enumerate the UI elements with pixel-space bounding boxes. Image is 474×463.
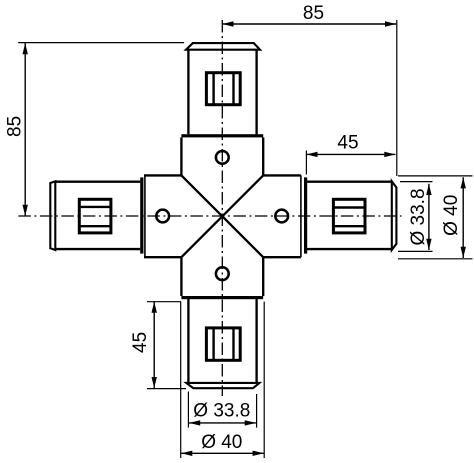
hole right socket — [275, 210, 288, 223]
dimension dia 40 right — [398, 176, 473, 259]
top tube clamp detail — [206, 73, 240, 105]
hole top socket — [216, 151, 229, 164]
svg-text:45: 45 — [337, 132, 358, 153]
svg-text:45: 45 — [130, 332, 151, 353]
dimension dia 40 bottom — [181, 302, 265, 458]
svg-text:Ø 40: Ø 40 — [201, 432, 242, 453]
svg-text:85: 85 — [303, 3, 324, 24]
right socket face — [300, 175, 302, 257]
top tube end cap — [186, 43, 260, 50]
svg-text:Ø 40: Ø 40 — [441, 195, 462, 236]
svg-text:Ø 33.8: Ø 33.8 — [193, 401, 250, 422]
bottom tube clamp detail — [206, 328, 240, 360]
dimension 85 left: line — [18, 43, 184, 216]
bottom tube body — [188, 299, 256, 383]
svg-text:85: 85 — [5, 116, 26, 137]
center body intersection diagonals — [181, 175, 263, 257]
top flange — [181, 134, 263, 137]
top socket — [181, 137, 263, 175]
left tube body — [55, 182, 140, 249]
dimension 45 bottom: line — [147, 302, 186, 389]
left tube clamp detail — [79, 199, 111, 233]
left tube end cap — [50, 181, 55, 250]
bottom flange — [181, 296, 263, 299]
dimension dia 33.8 bottom — [188, 392, 256, 428]
right flange — [304, 177, 307, 253]
bottom tube end cap — [186, 383, 259, 388]
right tube body — [307, 182, 392, 249]
svg-text:Ø 33.8: Ø 33.8 — [408, 188, 429, 245]
left socket — [144, 175, 181, 257]
right tube clamp detail — [333, 199, 365, 233]
bottom socket — [181, 257, 263, 296]
vertical centerline — [221, 20, 223, 396]
dimension 85 top: line — [222, 20, 396, 176]
right tube end cap — [392, 181, 397, 250]
hole left socket — [156, 210, 169, 223]
horizontal centerline — [18, 215, 401, 217]
hole bottom socket — [216, 267, 229, 280]
top tube body — [188, 50, 256, 135]
left socket face — [144, 175, 146, 257]
dimension dia 33.8 right — [398, 182, 433, 252]
dimension 45 right: line — [306, 151, 395, 175]
left flange — [140, 177, 143, 253]
right socket — [263, 175, 301, 257]
